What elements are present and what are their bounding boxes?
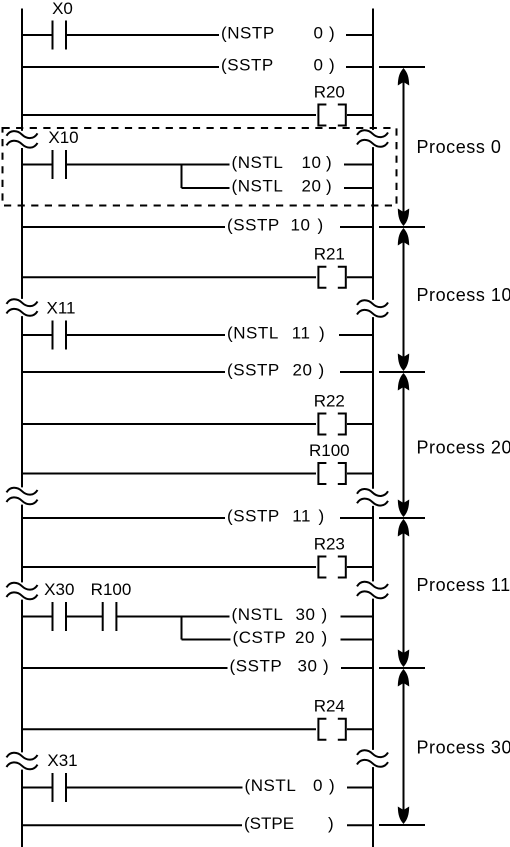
svg-text:X31: X31 bbox=[47, 751, 77, 770]
svg-text:X10: X10 bbox=[48, 128, 78, 147]
svg-text:): ) bbox=[329, 24, 335, 43]
svg-text:R20: R20 bbox=[314, 82, 345, 101]
svg-text:Process 11: Process 11 bbox=[417, 575, 510, 595]
svg-text:(STPE: (STPE bbox=[244, 814, 294, 833]
svg-text:): ) bbox=[328, 814, 334, 833]
svg-text:R21: R21 bbox=[314, 245, 345, 264]
svg-text:11: 11 bbox=[292, 507, 311, 526]
svg-text:R100: R100 bbox=[91, 580, 132, 599]
svg-text:R23: R23 bbox=[314, 534, 345, 553]
svg-text:(NSTL: (NSTL bbox=[232, 605, 284, 624]
svg-text:(SSTP: (SSTP bbox=[227, 216, 280, 235]
svg-text:): ) bbox=[329, 56, 335, 75]
svg-text:11: 11 bbox=[292, 324, 311, 343]
svg-text:R22: R22 bbox=[314, 391, 345, 410]
svg-text:R24: R24 bbox=[314, 697, 345, 716]
svg-text:(SSTP: (SSTP bbox=[227, 361, 280, 380]
svg-text:): ) bbox=[329, 776, 335, 795]
svg-text:20: 20 bbox=[301, 177, 321, 196]
svg-text:0: 0 bbox=[313, 776, 323, 795]
svg-text:0: 0 bbox=[313, 56, 323, 75]
svg-text:10: 10 bbox=[290, 216, 310, 235]
svg-text:): ) bbox=[319, 324, 325, 343]
svg-text:Process 20: Process 20 bbox=[417, 438, 510, 458]
svg-text:): ) bbox=[319, 361, 325, 380]
svg-text:(NSTL: (NSTL bbox=[232, 153, 284, 172]
svg-text:): ) bbox=[323, 657, 329, 676]
svg-text:X30: X30 bbox=[44, 580, 74, 599]
svg-text:(SSTP: (SSTP bbox=[221, 56, 274, 75]
svg-text:20: 20 bbox=[292, 361, 312, 380]
svg-text:(CSTP: (CSTP bbox=[233, 628, 287, 647]
svg-text:(NSTL: (NSTL bbox=[232, 177, 284, 196]
svg-text:(NSTL: (NSTL bbox=[245, 776, 297, 795]
svg-text:20: 20 bbox=[295, 628, 315, 647]
svg-text:X11: X11 bbox=[47, 299, 76, 318]
svg-text:Process 30: Process 30 bbox=[417, 738, 510, 758]
svg-text:): ) bbox=[322, 605, 328, 624]
svg-text:(NSTL: (NSTL bbox=[227, 324, 279, 343]
svg-text:(NSTP: (NSTP bbox=[221, 24, 275, 43]
svg-text:30: 30 bbox=[297, 657, 317, 676]
svg-text:30: 30 bbox=[295, 605, 315, 624]
svg-text:10: 10 bbox=[301, 153, 321, 172]
svg-text:Process 10: Process 10 bbox=[417, 285, 510, 305]
svg-text:0: 0 bbox=[313, 24, 323, 43]
svg-text:): ) bbox=[322, 628, 328, 647]
svg-text:(SSTP: (SSTP bbox=[227, 507, 280, 526]
svg-text:): ) bbox=[326, 153, 332, 172]
svg-text:X0: X0 bbox=[52, 0, 73, 18]
svg-text:(SSTP: (SSTP bbox=[230, 657, 283, 676]
svg-text:R100: R100 bbox=[309, 441, 350, 460]
svg-text:): ) bbox=[318, 216, 324, 235]
svg-text:): ) bbox=[326, 177, 332, 196]
svg-text:): ) bbox=[319, 507, 325, 526]
svg-text:Process 0: Process 0 bbox=[417, 137, 502, 157]
